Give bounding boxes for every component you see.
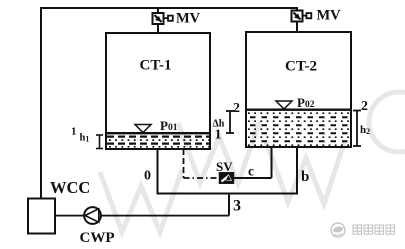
level symbol CT-1 (135, 125, 151, 133)
dimension h1 (left of CT-1) (96, 135, 103, 149)
wire: top header (40, 7, 298, 9)
svg-text:CWP: CWP (80, 230, 115, 246)
svg-text:P01: P01 (160, 118, 178, 133)
pipe c: SV to CT-2 bottom (234, 148, 272, 178)
watermark diagonal W left (100, 92, 405, 232)
wire: MV1 actuator stub (164, 17, 169, 19)
pump riser to pipe 3 (228, 193, 230, 216)
level symbol CT-2 (276, 101, 292, 109)
pipe 0: CT-1 outlet down (157, 149, 159, 194)
pipe a: CT-1 second outlet (dashed) (184, 149, 220, 178)
water hatch CT-2 (248, 113, 349, 145)
svg-text:P02: P02 (297, 95, 315, 110)
water hatch CT-1 (107, 137, 209, 147)
pipe b: CT-2 outlet down (296, 147, 298, 194)
svg-text:2: 2 (233, 101, 240, 116)
motor valve MV1 (153, 13, 164, 24)
svg-text:MV: MV (317, 8, 342, 24)
solenoid valve SV (220, 173, 234, 183)
svg-text:1: 1 (71, 126, 77, 138)
svg-text:MV: MV (176, 11, 201, 27)
svg-text:b: b (301, 169, 309, 185)
svg-text:3: 3 (233, 198, 241, 215)
wire: MV2 actuator stub (303, 15, 307, 17)
wire: MV2 drop from header (296, 9, 298, 11)
svg-text:1: 1 (215, 128, 222, 143)
MV1 actuator square (168, 16, 173, 21)
wire: MV1 to CT-1 top (157, 24, 159, 34)
watermark logo bottom right (331, 223, 345, 237)
water level line CT-1 (106, 132, 210, 134)
wire: MV2 to CT-2 top (296, 22, 298, 34)
wire: left main riser (40, 7, 42, 199)
pipe 3: bottom header (157, 193, 299, 195)
tank CT-1 (106, 33, 210, 149)
svg-text:h1: h1 (80, 133, 90, 144)
svg-text:CT-2: CT-2 (285, 59, 317, 75)
svg-text:SV: SV (216, 159, 233, 174)
motor valve MV2 (292, 11, 303, 22)
dimension h2 (right of CT-2) (353, 111, 361, 147)
dimension delta-h (between tanks) (226, 111, 234, 133)
tank CT-2 (246, 32, 351, 147)
svg-text:WCC: WCC (50, 178, 90, 197)
wire: MV1 drop from header (157, 9, 159, 14)
svg-text:2: 2 (361, 99, 368, 114)
WCC box (28, 199, 55, 234)
svg-text:CT-1: CT-1 (140, 58, 172, 74)
watermark text bottom right (353, 225, 395, 234)
pump CWP (84, 207, 101, 224)
svg-text:0: 0 (144, 169, 151, 184)
water level line CT-2 (246, 109, 351, 111)
MV2 actuator square (307, 13, 312, 18)
svg-text:c: c (248, 164, 254, 179)
pump discharge line (55, 215, 229, 217)
